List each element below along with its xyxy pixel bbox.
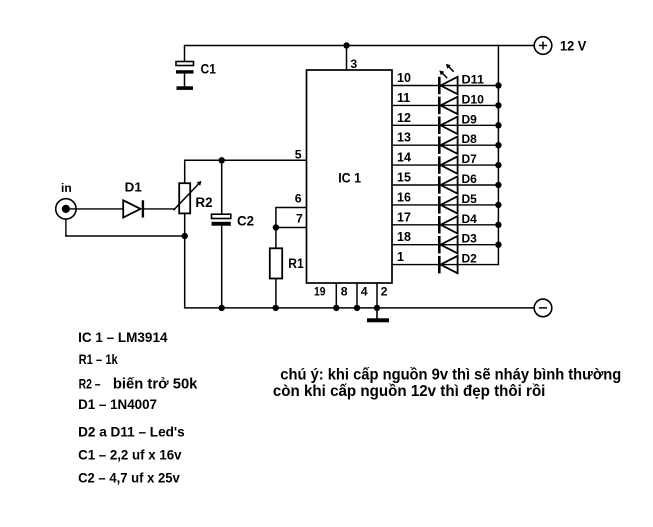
pin 17 wire: [392, 224, 498, 226]
svg-text:15: 15: [397, 171, 411, 185]
LED D11 light arrows: [439, 64, 453, 78]
wire C2 top lead: [221, 160, 223, 214]
svg-text:11: 11: [397, 91, 410, 105]
wire pin 3 stub: [346, 46, 348, 71]
svg-text:C1: C1: [201, 62, 217, 77]
svg-text:C1 – 2,2 uf x 16v: C1 – 2,2 uf x 16v: [78, 448, 182, 463]
svg-text:D9: D9: [462, 112, 478, 126]
LED D3: [438, 236, 458, 253]
pin 11 wire: [392, 104, 498, 106]
node rail dot D4: [495, 222, 501, 228]
svg-text:12 V: 12 V: [560, 39, 586, 54]
pin 18 wire: [392, 244, 498, 246]
LED D9: [438, 117, 458, 134]
wire pin 6: [276, 207, 307, 209]
svg-text:14: 14: [397, 151, 411, 165]
svg-text:IC 1 – LM3914: IC 1 – LM3914: [78, 329, 168, 345]
svg-text:C2: C2: [237, 214, 254, 229]
svg-text:5: 5: [295, 148, 302, 162]
node rail dot D3: [495, 242, 501, 248]
pin 16 wire: [392, 204, 498, 206]
svg-text:D5: D5: [462, 192, 478, 206]
svg-text:1: 1: [397, 250, 404, 264]
svg-text:D8: D8: [462, 132, 478, 146]
LED D6: [438, 176, 458, 193]
pin 10 wire: [392, 85, 498, 87]
node junction pin3 on top rail: [343, 42, 349, 48]
terminal in: [56, 199, 76, 219]
svg-text:3: 3: [350, 57, 357, 71]
LED D2: [438, 256, 458, 273]
svg-text:D10: D10: [462, 92, 485, 106]
svg-text:R2 –: R2 –: [79, 375, 101, 391]
svg-text:D3: D3: [462, 232, 478, 246]
node rail dot D7: [495, 162, 501, 168]
svg-text:D2 a D11 – Led's: D2 a D11 – Led's: [78, 424, 185, 440]
node rail dot D9: [495, 122, 501, 128]
svg-text:13: 13: [397, 131, 411, 145]
LED D7: [438, 156, 458, 173]
potentiometer R2 wiper arrow: [174, 181, 202, 210]
svg-text:C2 – 4,7 uf x 25v: C2 – 4,7 uf x 25v: [78, 471, 180, 486]
svg-text:R2: R2: [195, 195, 212, 210]
node dot C2 top: [219, 157, 225, 163]
wire R2 top: [184, 160, 186, 183]
wire C2 bottom lead: [221, 226, 223, 308]
svg-text:8: 8: [341, 284, 348, 298]
svg-text:chú ý: khi cấp nguồn 9v thì s: chú ý: khi cấp nguồn 9v thì sẽ nháy bình…: [280, 366, 621, 383]
LED D10: [438, 97, 458, 114]
svg-text:17: 17: [397, 210, 411, 224]
pin 4 wire: [356, 283, 358, 308]
wire R2 bottom: [184, 213, 186, 308]
resistor R2 body: [179, 183, 190, 213]
pin 13 wire: [392, 144, 498, 146]
resistor R1 body: [270, 248, 282, 278]
svg-text:6: 6: [295, 192, 302, 206]
pin 8 wire: [335, 283, 337, 308]
op-amp U1 IC body: [307, 70, 393, 283]
svg-text:2: 2: [381, 284, 388, 298]
LED D11: [438, 77, 458, 94]
wire pin6 down to R1: [275, 207, 277, 249]
svg-text:D6: D6: [462, 172, 478, 186]
svg-text:7: 7: [296, 211, 303, 225]
wire pin 5: [184, 159, 307, 161]
svg-text:18: 18: [397, 230, 411, 244]
wire pin 7: [276, 227, 307, 229]
node rail dot D10: [495, 102, 501, 108]
wire D1 to R2 wiper: [144, 208, 174, 210]
parts list line R2: [79, 375, 198, 392]
pin 1 wire: [392, 264, 498, 266]
diode D1: [123, 200, 144, 217]
wire right LED rail: [497, 45, 499, 265]
svg-text:IC 1: IC 1: [338, 171, 361, 186]
svg-text:D7: D7: [462, 152, 478, 166]
svg-text:biến trở 50k: biến trở 50k: [113, 375, 198, 392]
pin 15 wire: [392, 184, 498, 186]
svg-text:10: 10: [397, 71, 411, 85]
svg-text:D2: D2: [462, 252, 478, 266]
wire top +12V rail: [185, 45, 535, 47]
node dot R1 bottom: [273, 305, 279, 311]
node dot R2 input junction: [182, 233, 188, 239]
svg-text:còn khi cấp nguồn 12v thì đẹp: còn khi cấp nguồn 12v thì đẹp thôi rồi: [273, 383, 546, 400]
svg-text:16: 16: [397, 190, 411, 204]
pin 2 wire: [376, 283, 378, 308]
svg-text:R1: R1: [288, 256, 304, 271]
capacitor C1: [176, 62, 194, 87]
LED D4: [438, 216, 458, 233]
terminal minus: [534, 299, 552, 317]
svg-text:19: 19: [314, 284, 326, 298]
svg-text:D11: D11: [462, 73, 485, 87]
node dot pin7 junction: [273, 224, 279, 230]
capacitor C2: [212, 214, 231, 226]
node rail dot D8: [495, 142, 501, 148]
LED D5: [438, 196, 458, 213]
svg-text:in: in: [61, 181, 72, 195]
node dot pin4: [354, 305, 360, 311]
wire C1 top lead: [184, 45, 186, 62]
wire bottom ground rail: [184, 307, 534, 309]
ground: [367, 308, 389, 322]
ground bar below C1: [177, 86, 194, 90]
wire input return horizontal: [65, 235, 185, 237]
wire R1 bottom: [275, 279, 277, 308]
svg-text:D1: D1: [125, 180, 142, 195]
pin 14 wire: [392, 164, 498, 166]
svg-text:D4: D4: [462, 212, 478, 226]
wire in to D1: [70, 208, 123, 210]
pin 12 wire: [392, 124, 498, 126]
svg-text:4: 4: [361, 284, 368, 298]
node rail dot D11: [495, 82, 501, 88]
svg-text:12: 12: [397, 111, 411, 125]
svg-text:R1 – 1k: R1 – 1k: [79, 351, 118, 367]
LED D8: [438, 137, 458, 154]
terminal +12V: [534, 37, 552, 55]
wire input return vertical: [65, 219, 67, 237]
svg-text:D1 – 1N4007: D1 – 1N4007: [78, 396, 157, 412]
node rail dot D5: [495, 202, 501, 208]
node rail dot D6: [495, 182, 501, 188]
node dot pin2: [374, 305, 380, 311]
node dot C2 bottom: [219, 305, 225, 311]
node dot pin8: [333, 305, 339, 311]
